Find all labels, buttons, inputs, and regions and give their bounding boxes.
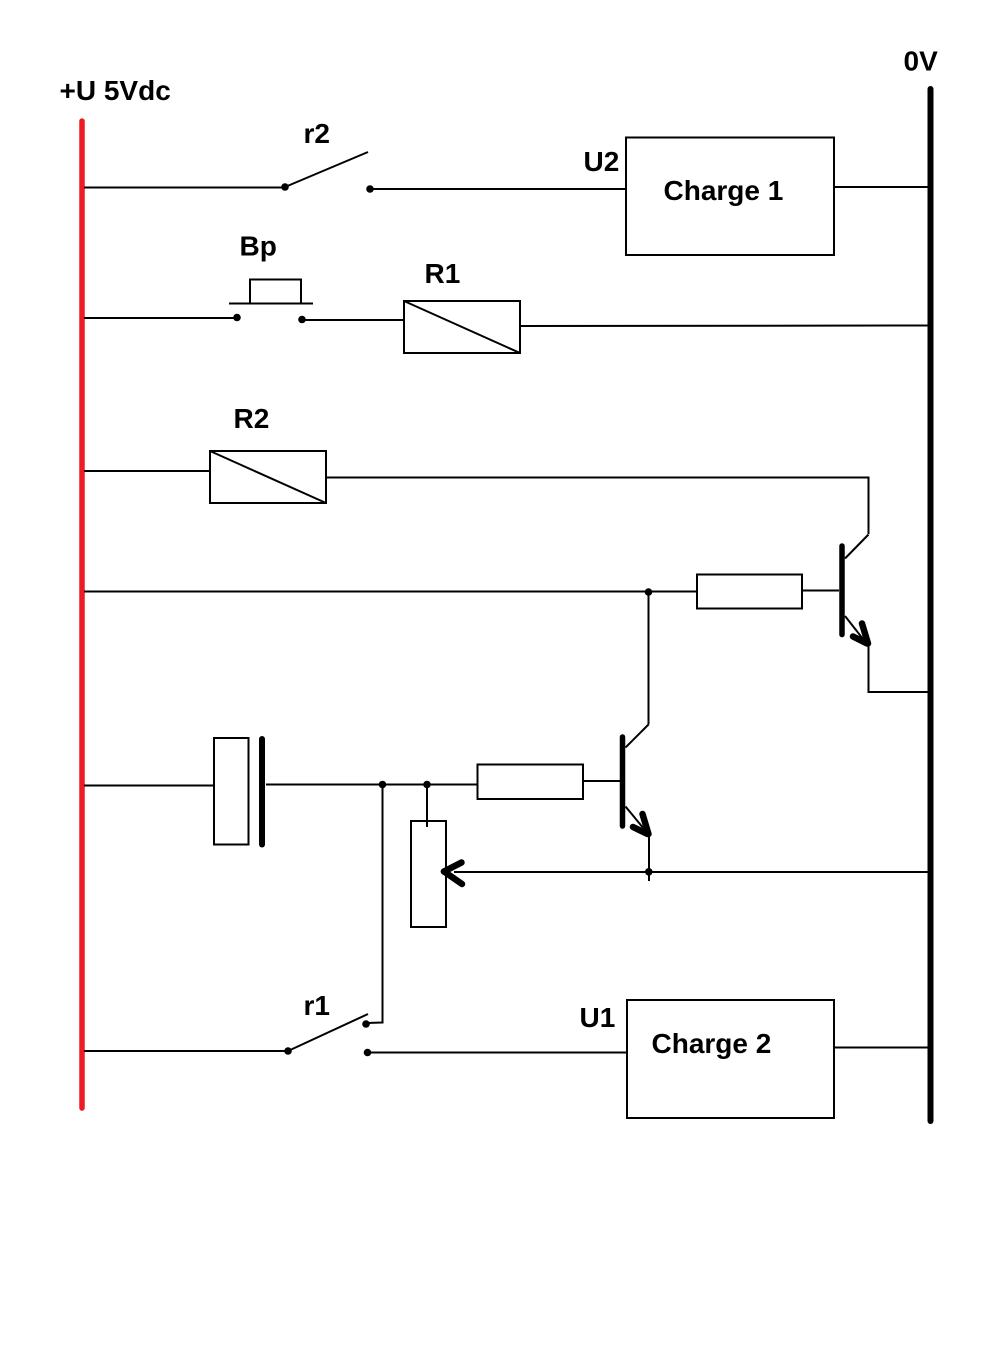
resistor R4 (Q2 base) <box>478 765 584 800</box>
relay coil R1 <box>404 301 520 353</box>
capacitor C1 <box>214 738 262 845</box>
resistor R3 (Q1 base) <box>697 575 802 609</box>
wire: rail to R2 <box>84 470 210 472</box>
switch r1 <box>284 1014 371 1056</box>
wire: Charge 2 to 0V rail <box>834 1047 928 1049</box>
wire: rail to Q1 base node <box>84 591 697 593</box>
+U 5Vdc supply rail (red) <box>79 121 85 1108</box>
wire: rail to capacitor C1 <box>84 785 214 787</box>
svg-text:Charge 2: Charge 2 <box>652 1028 772 1059</box>
wire: Q2 emitter down to node D <box>648 835 650 881</box>
svg-text:0V: 0V <box>904 46 939 77</box>
svg-text:+U 5Vdc: +U 5Vdc <box>60 75 171 106</box>
wire: C1 to resistor R4 <box>266 784 478 786</box>
wire: R3 to Q1 base <box>802 590 839 592</box>
node A junction (Q1 base / Q2 collector) <box>645 588 653 596</box>
transistor Q2 <box>623 725 650 836</box>
svg-text:r1: r1 <box>304 990 330 1021</box>
transistor Q1 <box>842 535 869 647</box>
load U2 "Charge 1" <box>626 138 834 256</box>
wire: Bp to R1 <box>302 319 404 321</box>
wire: R1 to 0V rail <box>520 325 928 328</box>
wire: wiper to 0V rail <box>454 871 928 873</box>
load U1 "Charge 2" <box>627 1000 834 1118</box>
svg-text:r2: r2 <box>304 118 330 149</box>
node D junction (emitter / wiper wire) <box>645 868 653 876</box>
wire: rail to push button Bp <box>84 317 237 319</box>
node C junction (to potentiometer) <box>423 781 431 789</box>
push button Bp <box>229 280 313 324</box>
wire: R2 to Q1 collector <box>326 478 869 535</box>
wire: Q1 emitter to 0V rail <box>869 645 929 692</box>
relay coil R2 <box>210 451 326 503</box>
svg-text:U2: U2 <box>584 146 620 177</box>
wire: rail to switch r2 <box>84 187 285 189</box>
wire: r2 to Charge 1 <box>370 188 626 190</box>
wire: node C down to potentiometer <box>426 785 428 828</box>
wire: rail to switch r1 <box>84 1050 288 1052</box>
wire: node B down to switch r1 <box>367 785 383 1024</box>
node B junction (to r1) <box>379 781 387 789</box>
wire: R4 to Q2 base <box>583 780 620 782</box>
wire: r1 to Charge 2 <box>369 1052 627 1054</box>
svg-text:Bp: Bp <box>240 231 277 262</box>
potentiometer P1 <box>411 821 462 927</box>
0V ground rail (black) <box>928 89 934 1121</box>
svg-text:U1: U1 <box>580 1002 616 1033</box>
svg-text:R1: R1 <box>425 258 461 289</box>
svg-text:Charge 1: Charge 1 <box>664 175 784 206</box>
svg-text:R2: R2 <box>234 403 270 434</box>
switch r2 <box>281 152 374 193</box>
wire: Q2 collector up to node A <box>648 592 650 725</box>
wire: Charge 1 to 0V rail <box>834 186 928 188</box>
